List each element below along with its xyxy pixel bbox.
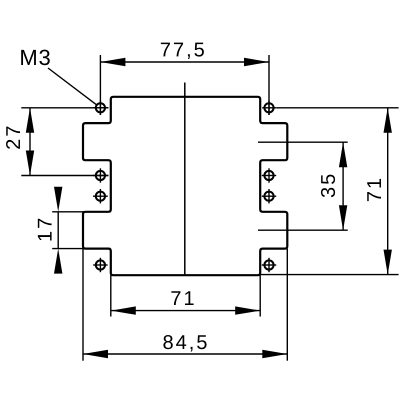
dim 84,5 arrow left bbox=[83, 350, 108, 358]
dim 17 arrow lower (outside, pointing up) bbox=[54, 249, 62, 274]
dim 17 line bbox=[57, 212, 59, 249]
hole mid-right upper bbox=[262, 168, 276, 182]
part outline bbox=[83, 97, 287, 275]
hole bottom-left bbox=[93, 258, 107, 272]
dim 35 extension top bbox=[258, 141, 348, 143]
dim 77,5 extension right bbox=[268, 55, 270, 115]
hole top-left M3 bbox=[93, 101, 108, 115]
dim 84,5 arrow right bbox=[262, 350, 287, 358]
dim 17 arrow upper (outside, pointing down) bbox=[54, 187, 62, 212]
dim 77,5 extension left bbox=[99, 55, 101, 115]
hole mid-right lower bbox=[262, 189, 276, 203]
M3 leader bbox=[48, 68, 97, 105]
holes: circle-cross symbols bbox=[93, 101, 276, 273]
center line bbox=[184, 83, 186, 276]
dim 77,5 arrow left bbox=[100, 58, 125, 66]
dim 77,5 line bbox=[100, 61, 269, 63]
dim 77,5 arrow right bbox=[244, 58, 269, 66]
label 77,5 bbox=[161, 43, 204, 59]
dim 27 extension top bbox=[21, 107, 108, 109]
label 71 bottom bbox=[171, 291, 193, 305]
dim 35 line bbox=[342, 142, 344, 230]
dim 27 arrow down bbox=[26, 151, 34, 176]
dim 71 right line bbox=[387, 108, 389, 275]
dim 27 arrow up bbox=[26, 108, 34, 133]
hole bottom-right bbox=[262, 258, 276, 272]
dim 71 bottom arrow left bbox=[111, 306, 136, 314]
dim 71 bottom line bbox=[111, 310, 260, 312]
dim 27 extension bottom bbox=[21, 175, 108, 177]
dim 84,5 line bbox=[83, 353, 287, 355]
dim 71 bottom arrow right bbox=[235, 306, 260, 314]
label 27 rotated bbox=[6, 127, 20, 149]
label 84,5 bbox=[163, 335, 206, 352]
dim 71 bottom extension right bbox=[259, 275, 261, 316]
hole mid-left upper bbox=[93, 168, 108, 182]
thin lines bbox=[21, 55, 398, 361]
dim 71 right arrow up bbox=[384, 108, 392, 133]
label 35 rotated bbox=[321, 175, 335, 198]
label M3 bbox=[21, 50, 50, 66]
dim 71 right arrow down bbox=[384, 250, 392, 275]
dim 27 line bbox=[29, 108, 31, 176]
dim 17 extension bottom bbox=[52, 248, 111, 250]
dim 84,5 extension right bbox=[286, 249, 288, 361]
hole top-right bbox=[262, 101, 276, 115]
dim 35 extension bottom bbox=[258, 229, 348, 231]
dim 71 right extension top bbox=[276, 107, 398, 109]
dim 35 arrow down bbox=[339, 205, 347, 230]
dim 84,5 extension left bbox=[82, 249, 84, 361]
dim 71 right extension bottom bbox=[260, 274, 398, 276]
dim 71 bottom extension left bbox=[110, 275, 112, 316]
label 71 right rotated bbox=[367, 179, 381, 201]
dim 35 arrow up bbox=[339, 142, 347, 167]
arrows bbox=[26, 58, 392, 358]
label 17 rotated bbox=[38, 219, 52, 241]
hole mid-left lower bbox=[93, 189, 108, 203]
dim 17 extension top bbox=[52, 211, 111, 213]
